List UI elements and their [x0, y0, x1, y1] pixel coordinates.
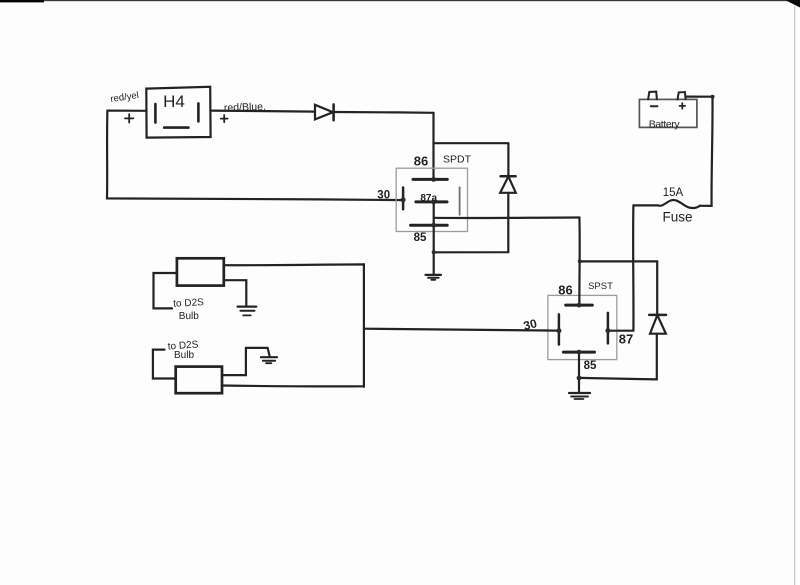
svg-text:87: 87 — [619, 332, 633, 347]
svg-text:Battery: Battery — [649, 119, 681, 131]
svg-text:85: 85 — [414, 232, 427, 244]
svg-text:red/Blue.: red/Blue. — [224, 101, 266, 114]
svg-text:86: 86 — [558, 283, 572, 298]
svg-text:30: 30 — [377, 190, 390, 202]
svg-text:Fuse: Fuse — [662, 210, 692, 225]
svg-text:H4: H4 — [163, 92, 185, 111]
svg-text:SPST: SPST — [588, 281, 613, 292]
svg-text:86: 86 — [414, 154, 428, 169]
svg-text:Bulb: Bulb — [179, 311, 199, 322]
svg-text:to D2S: to D2S — [173, 297, 204, 310]
svg-text:SPDT: SPDT — [443, 154, 472, 166]
svg-text:87a: 87a — [420, 193, 437, 204]
svg-text:85: 85 — [584, 360, 597, 372]
svg-text:15A: 15A — [663, 187, 684, 199]
svg-text:Bulb: Bulb — [174, 350, 194, 361]
